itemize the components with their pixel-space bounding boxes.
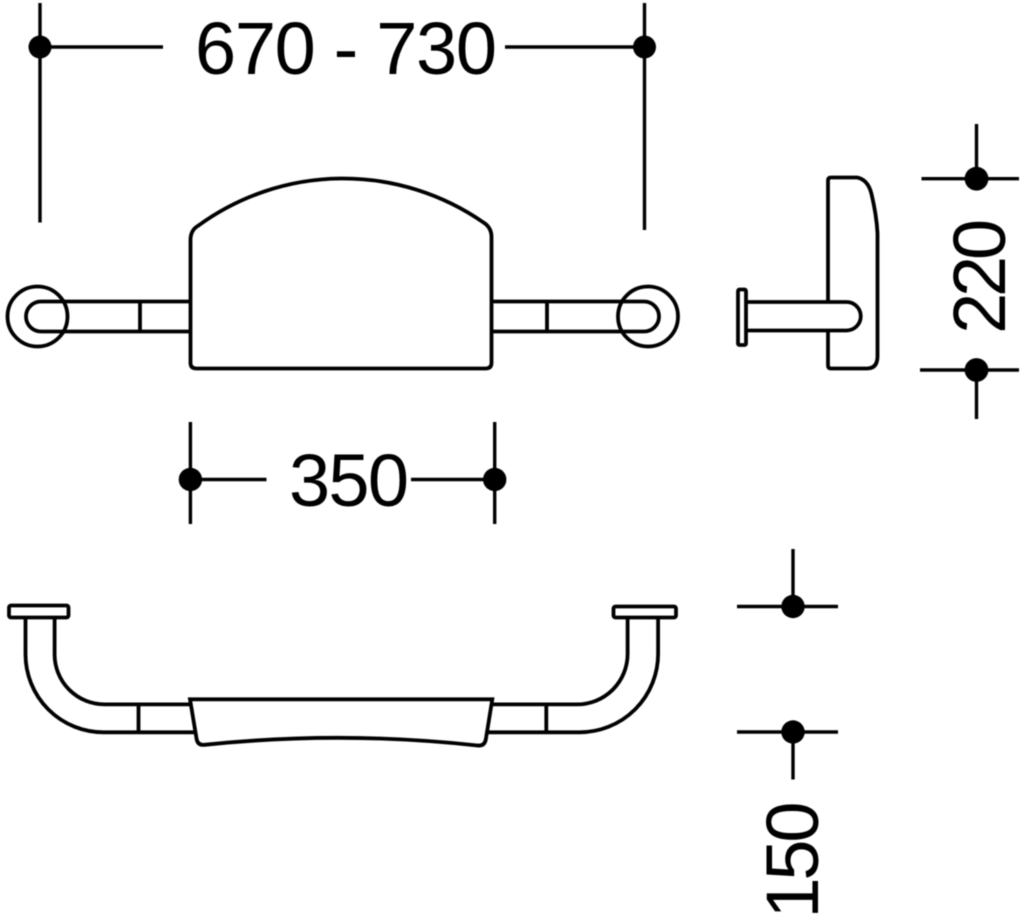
dimension dot right (670-730) <box>633 36 656 59</box>
dimension leader right (350) <box>411 478 495 481</box>
dimension dot left (350) <box>179 468 202 491</box>
dimension extension line right (670-730) <box>643 3 646 230</box>
svg-text:150: 150 <box>751 802 834 917</box>
dimension leader bottom (220) <box>920 368 1019 371</box>
grab bar front view <box>26 302 659 332</box>
grab rail tube top view <box>26 612 659 732</box>
right wall mount rosette front view <box>618 287 678 347</box>
right wall flange top view <box>614 607 677 618</box>
dimension dot bottom (220) <box>965 358 989 382</box>
svg-text:350: 350 <box>289 439 409 522</box>
dimension leader top (220) <box>922 177 1020 180</box>
dimension leader left (350) <box>190 478 266 481</box>
dimension dot top (220) <box>965 167 989 191</box>
backrest cushion top view <box>190 699 492 745</box>
dimension dot right (350) <box>483 468 506 491</box>
dimension dot left (670-730) <box>29 36 52 59</box>
dimension leader right (670-730) <box>505 45 645 48</box>
dimension leader bottom (150) <box>737 730 838 733</box>
bar joint tick left front view <box>138 302 142 332</box>
wall flange side view <box>738 290 746 346</box>
svg-text:670 - 730: 670 - 730 <box>195 7 497 90</box>
dimension extension line left (670-730) <box>38 3 41 223</box>
dimension leader top (150) <box>737 605 838 608</box>
dimension leader left (670-730) <box>40 45 163 48</box>
dimension extension line right (350) <box>493 422 496 524</box>
dimension dot bottom (150) <box>781 720 804 743</box>
svg-text:220: 220 <box>938 219 1021 334</box>
dimension extension line left (350) <box>189 422 192 524</box>
backrest cushion front view <box>191 179 492 369</box>
dimension extension line top (220) <box>975 124 978 179</box>
left wall mount rosette front view <box>8 287 68 347</box>
backrest cushion side view <box>828 178 878 369</box>
left wall flange top view <box>9 606 69 618</box>
dimension extension line bottom (220) <box>975 370 978 419</box>
dimension extension line top (150) <box>791 549 794 607</box>
dimension extension line bottom (150) <box>791 732 794 780</box>
tube joint tick left top view <box>137 704 141 732</box>
tube joint tick right top view <box>544 704 548 732</box>
bar joint tick right front view <box>545 302 549 332</box>
grab bar side view <box>744 302 861 331</box>
dimension dot top (150) <box>781 595 804 618</box>
